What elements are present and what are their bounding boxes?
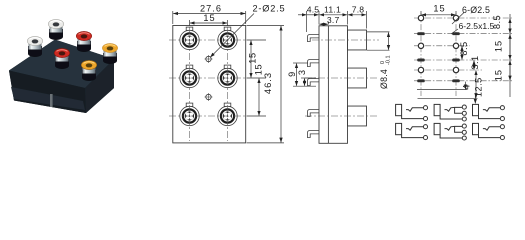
- pin slot r2c1: [417, 59, 425, 62]
- schematic sw1 (r1c1): [396, 104, 428, 120]
- svg-text:46.3: 46.3: [262, 72, 273, 94]
- column centerline c2: [227, 27, 229, 141]
- schematic sw3 (r1c3): [473, 104, 505, 120]
- dim 15 vertical r2-r3: [258, 79, 260, 116]
- front view jack r1c1: [180, 27, 199, 50]
- dim 3.7 line: [320, 23, 329, 25]
- side view cylinder row1: [348, 30, 367, 50]
- pin circle r2c1: [418, 43, 423, 48]
- pin circle r3c2: [453, 67, 458, 72]
- side view body: [319, 26, 348, 144]
- right side extension lines: [247, 39, 266, 41]
- row centerline r1: [169, 39, 246, 41]
- row centerline r3: [169, 115, 246, 117]
- front view jack r1c2: [218, 27, 237, 50]
- leader 6-2.5x1.5: [451, 29, 458, 34]
- pin hook 3: [307, 79, 319, 86]
- side view cylinder row3: [348, 106, 367, 126]
- row centerline r2: [169, 77, 246, 79]
- connector front face sheen: [11, 87, 85, 110]
- side view centerline row1: [312, 39, 379, 41]
- pin slot r1c2: [452, 32, 460, 35]
- solder pin under body: [50, 94, 53, 107]
- jack white front W2: [27, 36, 42, 57]
- dim 15 line: [422, 14, 456, 16]
- pin hook 5: [307, 131, 319, 138]
- schematic sw5 (r2c2): [434, 123, 466, 140]
- row centerline circle3: [414, 69, 482, 71]
- left ext lines 9 and 3: [293, 62, 308, 64]
- svg-text:8.5: 8.5: [492, 15, 502, 29]
- front view jack r2c1: [180, 65, 199, 88]
- side view centerline row2: [305, 77, 377, 79]
- dim 3.1 line: [473, 61, 475, 70]
- side view dimensions: [293, 11, 390, 86]
- svg-text:15: 15: [494, 69, 504, 81]
- pin circle r1c2: [453, 15, 458, 20]
- pin circle r1c1: [418, 15, 423, 20]
- datum line B: [418, 97, 478, 99]
- svg-text:11.1: 11.1: [324, 4, 341, 14]
- svg-text:7.8: 7.8: [352, 4, 365, 14]
- svg-text:6-2.5x1.5: 6-2.5x1.5: [459, 21, 495, 31]
- small hole H1: [205, 55, 213, 63]
- jack red back R1: [76, 31, 91, 52]
- outer chain ticks: [509, 19, 511, 34]
- dim 7.8 line: [348, 14, 366, 16]
- front view jack r3c2: [218, 103, 237, 126]
- svg-text:Ø8.4: Ø8.4: [379, 69, 389, 89]
- pin circle r3c1: [418, 67, 423, 72]
- column centerline left: [420, 13, 422, 96]
- ext line 3.7: [327, 22, 329, 25]
- dim 15 vertical r1-r2: [250, 41, 252, 78]
- pin hook 1: [307, 35, 319, 42]
- dim 12.5 line: [475, 71, 477, 98]
- side view flange line: [327, 26, 329, 144]
- phi8.4 ext lines: [367, 31, 390, 33]
- row centerline flat3: [414, 80, 512, 82]
- datum line A: [417, 89, 467, 91]
- jack yellow front Y2: [81, 60, 96, 81]
- jack white back W1: [48, 19, 63, 40]
- schematic sw6 (r2c3): [473, 123, 505, 139]
- dim phi8.4 line: [388, 32, 390, 49]
- leader 2-phi2.5: [210, 14, 254, 58]
- pin slot r3c2: [452, 79, 460, 82]
- svg-text:3.1: 3.1: [470, 55, 480, 69]
- svg-text:4: 4: [462, 85, 472, 90]
- dim 15 extension lines top: [189, 20, 191, 26]
- small hole H2: [205, 93, 213, 101]
- jack red front R2: [54, 48, 69, 69]
- dim 11.1 line: [320, 14, 348, 16]
- svg-text:4.5: 4.5: [307, 4, 320, 14]
- dim 8.5 inner line: [461, 46, 463, 59]
- svg-text:3: 3: [297, 70, 307, 75]
- dim 3 line: [304, 79, 306, 86]
- side view cylinder row2: [348, 68, 367, 88]
- front view body outline: [173, 26, 246, 143]
- dim 9 line: [296, 64, 298, 86]
- connector front face: [9, 71, 86, 114]
- dim 27.6 extension lines: [172, 11, 174, 24]
- pin slot r1c1: [417, 32, 425, 35]
- back view dims: [417, 11, 510, 104]
- front view dimensions: [173, 11, 284, 143]
- column centerline right: [455, 13, 457, 96]
- ext lines top: [306, 11, 308, 32]
- svg-text:6-Ø2.5: 6-Ø2.5: [462, 5, 490, 15]
- dim 27.6 line: [173, 13, 245, 15]
- svg-text:15: 15: [433, 4, 445, 14]
- connector right face: [85, 59, 114, 113]
- side view centerline row3: [305, 115, 377, 117]
- pin circle r2c2: [453, 43, 458, 48]
- svg-text:15: 15: [203, 13, 215, 23]
- row centerline circle1: [414, 17, 512, 19]
- outer chain line: [509, 14, 511, 97]
- svg-text:8.5: 8.5: [459, 41, 469, 55]
- svg-text:9: 9: [287, 72, 297, 77]
- dim 46.3 vertical: [280, 26, 282, 142]
- schematic sw4 (r2c1): [396, 123, 428, 139]
- svg-text:15: 15: [494, 40, 504, 52]
- row centerline flat1: [414, 33, 512, 35]
- connector body silhouette: [9, 40, 114, 114]
- svg-text:27.6: 27.6: [200, 4, 222, 14]
- dim 4.5 line: [298, 14, 307, 16]
- svg-text:-0.1: -0.1: [386, 55, 392, 65]
- leader 6-phi2.5: [452, 13, 464, 25]
- column centerline c1: [189, 27, 191, 141]
- jack yellow back Y1: [102, 43, 117, 64]
- pin hook 4: [307, 110, 319, 117]
- row centerline flat2: [414, 59, 512, 61]
- schematic sw2 (r1c2): [434, 104, 466, 121]
- svg-text:3.7: 3.7: [327, 15, 340, 25]
- dim 15 line top: [190, 22, 227, 24]
- svg-text:2-Ø2.5: 2-Ø2.5: [253, 4, 286, 14]
- front view jack r3c1: [180, 103, 199, 126]
- svg-text:15: 15: [248, 52, 258, 63]
- connector top face: [9, 40, 114, 89]
- arrow to schematic: [474, 93, 476, 104]
- svg-text:12.5: 12.5: [474, 77, 484, 97]
- front view jack r2c2: [218, 65, 237, 88]
- pin hook 2: [307, 60, 319, 67]
- pin slot r3c1: [417, 79, 425, 82]
- dim 4 line: [465, 82, 467, 90]
- dim text phi8.4: [379, 55, 392, 89]
- dim 15 ext lines: [420, 11, 422, 15]
- pin slot r2c2: [452, 59, 460, 62]
- row centerline circle2: [414, 45, 470, 47]
